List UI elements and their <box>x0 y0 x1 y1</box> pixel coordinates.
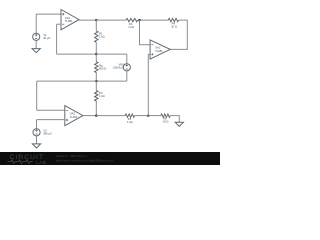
watermark bar <box>0 152 220 166</box>
node bottom of R2 <box>95 114 98 117</box>
resistor R2 <box>95 81 105 116</box>
svg-text:180 µV: 180 µV <box>43 132 52 136</box>
wire OA1 feedback down <box>56 24 58 54</box>
ground G2 <box>32 144 40 148</box>
svg-text:TL081: TL081 <box>65 19 73 23</box>
svg-text:40 µV: 40 µV <box>43 36 50 40</box>
ground G1 <box>32 49 40 53</box>
wire feedback to node X <box>57 53 97 55</box>
wire V1 top stem <box>35 14 37 33</box>
wire R3 to R4 <box>138 19 169 21</box>
svg-text:LAB: LAB <box>36 160 46 165</box>
wire V1 to OA1 +in <box>36 13 61 15</box>
node R5/R6 junction <box>147 114 150 117</box>
svg-text:-228.8 µV: -228.8 µV <box>112 66 124 70</box>
op-amp OA1 <box>61 10 79 30</box>
ground G3 <box>175 122 183 126</box>
op-amp OA3 <box>65 106 83 126</box>
wire OA1 output <box>79 19 96 21</box>
wire V1 bottom stem <box>35 40 37 48</box>
node top of R1 <box>95 19 98 22</box>
wire top rail to R3 <box>96 19 126 21</box>
wire R5 to node <box>135 115 149 117</box>
wire R4 to OA2 output <box>170 20 187 49</box>
svg-text:TL081: TL081 <box>155 49 163 53</box>
voltage source V1 <box>33 33 51 41</box>
wire VM1 top stem <box>126 54 128 64</box>
wire OA2 +in stub <box>148 53 150 55</box>
wire into OA3 -in <box>37 109 65 111</box>
wire node X to VM1 <box>96 53 127 55</box>
node Y <box>95 80 98 83</box>
wire OA2 +in down to bottom rail <box>147 54 149 115</box>
wire down to OA3 -in <box>36 81 38 110</box>
svg-text:1 kΩ: 1 kΩ <box>99 34 105 38</box>
svg-text:1 kΩ: 1 kΩ <box>128 25 134 29</box>
wire V2 top stem <box>36 120 38 129</box>
wire V2 bottom stem <box>36 136 38 144</box>
resistor R4 <box>168 18 178 28</box>
svg-text:1 kΩ: 1 kΩ <box>127 120 133 124</box>
svg-text:TL081: TL081 <box>70 115 78 119</box>
svg-text:http://www.circuitlab.com/c/ba: http://www.circuitlab.com/c/ba8c38/b5acc… <box>56 159 114 163</box>
wire OA1 -in stub <box>57 23 61 25</box>
svg-text:500 Ω: 500 Ω <box>99 66 106 70</box>
node OA2 -in branch <box>138 19 141 22</box>
wire VM1 to node Y <box>96 80 127 82</box>
op-amp OA2 <box>150 40 170 59</box>
node X <box>95 53 98 56</box>
svg-text:1 kΩ: 1 kΩ <box>99 94 105 98</box>
resistor R1 <box>95 20 105 54</box>
voltage source V2 <box>33 129 52 136</box>
wire node Y left <box>37 80 97 82</box>
wire node to R6 <box>148 115 161 117</box>
resistor Rg <box>95 54 107 81</box>
svg-text:phlatline : 20524121_1: phlatline : 20524121_1 <box>56 154 88 158</box>
wire OA3 output <box>83 115 96 117</box>
wire down to OA2 -in <box>140 20 151 45</box>
resistor R5 <box>125 114 134 124</box>
resistor R3 <box>126 18 138 29</box>
resistor R6 <box>161 114 170 124</box>
wire OA3 +in <box>37 119 65 121</box>
wire VM1 bottom stem <box>126 71 128 81</box>
voltmeter VM1 <box>112 62 130 71</box>
svg-text:10 Ω: 10 Ω <box>171 25 177 29</box>
wire R6 to ground corner <box>170 116 179 123</box>
svg-text:10 Ω: 10 Ω <box>163 120 169 124</box>
wire bottom rail to R5 <box>96 115 125 117</box>
